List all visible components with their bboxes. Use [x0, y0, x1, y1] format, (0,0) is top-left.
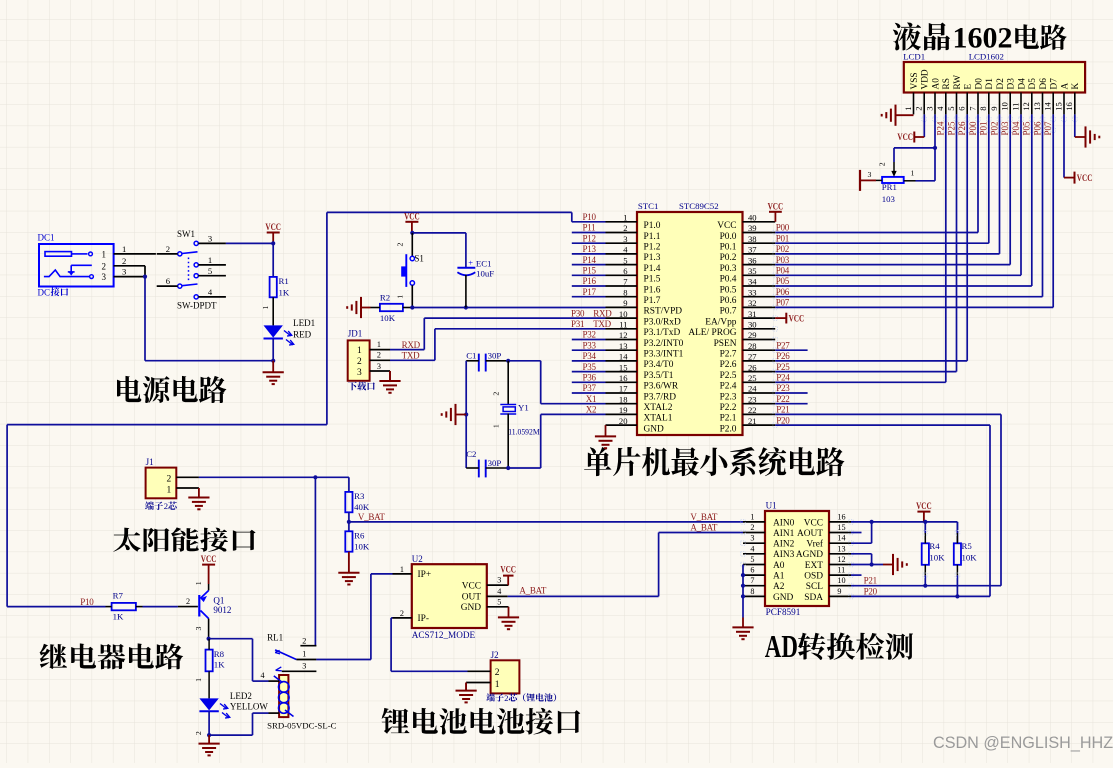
svg-text:P23: P23 [776, 383, 790, 393]
MCU pin 17 (P3.7/RD) [606, 384, 677, 403]
LCD1 pin 9 (D2) [989, 78, 1006, 115]
svg-text:P27: P27 [776, 340, 790, 350]
junction U1 pin8 [741, 594, 745, 598]
svg-text:12: 12 [837, 555, 845, 564]
junction EXT row [870, 562, 874, 566]
svg-text:VCC: VCC [404, 211, 420, 221]
svg-text:P0.1: P0.1 [720, 243, 737, 253]
svg-text:13: 13 [619, 341, 628, 351]
svg-text:VCC: VCC [462, 581, 481, 591]
VCC at U2 pin3 [500, 565, 516, 586]
svg-text:2: 2 [302, 637, 306, 646]
svg-text:P07: P07 [1043, 121, 1053, 136]
MCU pin 33 (P0.6) [720, 287, 776, 306]
svg-text:P1.3: P1.3 [644, 253, 661, 263]
junction reset VCC [410, 231, 414, 235]
svg-text:GND: GND [461, 603, 482, 613]
wire OSD stub [851, 574, 862, 576]
svg-text:P03: P03 [1000, 121, 1010, 136]
ground at MCU pin20 [595, 425, 616, 448]
net TXD wire JD1 [390, 329, 435, 361]
VCC at LCD pin15 [1064, 172, 1092, 184]
svg-text:P2.1: P2.1 [720, 414, 737, 424]
svg-text:21: 21 [748, 416, 757, 426]
resistor R5 10K [954, 522, 977, 597]
svg-text:P05: P05 [1022, 121, 1032, 136]
MCU pin 25 (P2.4) [720, 373, 776, 392]
wire AOUT stub [851, 532, 862, 534]
svg-text:3: 3 [208, 234, 212, 244]
svg-text:P03: P03 [776, 255, 790, 265]
svg-text:2: 2 [623, 223, 627, 233]
svg-text:AIN1: AIN1 [773, 529, 795, 539]
U1 pin 7 (A2) [743, 576, 785, 592]
U1 pin 10 (SCL) [806, 576, 851, 592]
DC1 pin 2 [114, 256, 145, 266]
LCD1 pin 10 (D3) [1000, 78, 1017, 115]
JD1 pin 3 [370, 362, 390, 371]
svg-text:P25: P25 [776, 362, 790, 372]
wire LCD pin16 (K) to ground [1074, 114, 1076, 137]
svg-text:5: 5 [946, 107, 956, 111]
VCC at Q1 emitter [201, 554, 217, 584]
svg-text:P14: P14 [583, 255, 597, 265]
SW1 pin 3 [198, 234, 226, 244]
svg-text:P1.6: P1.6 [644, 285, 661, 295]
wire LCD pin 11 net P04 vertical [1020, 114, 1022, 275]
ACS712_MODE label [412, 630, 476, 640]
svg-text:1: 1 [122, 244, 126, 254]
svg-text:3: 3 [868, 170, 872, 179]
svg-text:10: 10 [837, 576, 845, 585]
svg-text:19: 19 [619, 405, 628, 415]
MCU pin 14 (P3.4/T0) [606, 352, 674, 371]
svg-text:AOUT: AOUT [797, 529, 823, 539]
svg-text:AD: AD [765, 629, 798, 663]
net P20 wire [775, 415, 990, 596]
U1 pin 2 (AIN1) [743, 523, 795, 539]
svg-text:Q1: Q1 [213, 595, 224, 605]
下载口 label [348, 382, 375, 391]
wire DC1 pin2 down to pin3 [144, 266, 146, 277]
svg-text:P37: P37 [583, 383, 597, 393]
wire P10 long route [7, 212, 605, 606]
svg-text:SW1: SW1 [177, 229, 195, 239]
wire reset node to MCU pin9 [412, 307, 605, 309]
svg-text:25: 25 [748, 373, 757, 383]
RL1 pin 5 [269, 712, 280, 714]
svg-text:2: 2 [400, 609, 404, 618]
svg-text:R4: R4 [929, 541, 940, 551]
svg-text:10K: 10K [929, 553, 945, 563]
VCC power circuit [265, 222, 281, 243]
svg-text:16: 16 [837, 512, 845, 521]
svg-text:10: 10 [1000, 102, 1010, 111]
svg-text:P3.3/INT1: P3.3/INT1 [644, 350, 684, 360]
wire C1 left down to C2 [465, 361, 467, 468]
U1 pin 12 (EXT) [805, 555, 851, 571]
svg-text:PCF8591: PCF8591 [766, 607, 801, 617]
svg-text:R3: R3 [354, 491, 365, 501]
svg-text:2: 2 [377, 351, 381, 360]
svg-text:P25: P25 [946, 121, 956, 136]
resistor R1 1K [261, 276, 290, 309]
junction S1/R2 [410, 305, 414, 309]
svg-text:P20: P20 [864, 586, 878, 596]
U2 designator [412, 554, 423, 564]
svg-text:P05: P05 [776, 276, 790, 286]
svg-text:1602: 1602 [953, 21, 1013, 54]
svg-text:3: 3 [122, 267, 126, 277]
J1 pin 1 [176, 487, 199, 489]
svg-text:D3: D3 [1007, 78, 1017, 90]
MCU pin 38 (P0.1) [720, 234, 776, 253]
svg-text:P33: P33 [583, 340, 597, 350]
RL1 pin 4 [261, 671, 280, 681]
svg-text:X2: X2 [586, 405, 597, 415]
u1 pin marks [741, 520, 854, 599]
svg-text:P3.6/WR: P3.6/WR [644, 382, 679, 392]
SRD-05VDC-SL-C label [267, 721, 337, 731]
svg-text:VCC: VCC [1077, 173, 1093, 183]
title: relay circuit 继电器电路 [40, 643, 184, 669]
svg-text:P0.3: P0.3 [720, 264, 737, 274]
svg-text:+: + [468, 258, 473, 268]
svg-text:16: 16 [1064, 102, 1074, 111]
U2 pin 4 (OUT) [462, 587, 508, 603]
svg-text:PSEN: PSEN [714, 339, 737, 349]
net P03 wire [775, 255, 1010, 265]
svg-text:1: 1 [208, 255, 212, 265]
svg-text:2: 2 [194, 731, 203, 735]
svg-text:2: 2 [396, 243, 405, 247]
wire AGND jog to EXT [851, 554, 872, 565]
watermark CSDN [933, 734, 1113, 752]
svg-text:P10: P10 [583, 212, 597, 222]
MCU pin 2 (P1.1) [606, 223, 661, 242]
svg-text:31: 31 [748, 309, 757, 319]
svg-text:36: 36 [748, 255, 757, 265]
svg-text:A0: A0 [773, 561, 785, 571]
wire LED2 to ground rail [194, 711, 209, 735]
MCU pin 5 (P1.4) [606, 255, 661, 274]
net label P24 (rotated) [936, 121, 946, 136]
svg-text:TXD: TXD [402, 351, 420, 361]
junction V_BAT [347, 520, 351, 524]
svg-text:P24: P24 [776, 373, 790, 383]
svg-text:P31: P31 [571, 319, 584, 329]
MCU pin 23 (P2.2) [720, 394, 776, 413]
svg-text:6: 6 [623, 266, 628, 276]
junction LED2 ground [207, 733, 211, 737]
LCD1 pin 11 (D4) [1010, 78, 1027, 115]
net label P36 wire [572, 373, 606, 383]
svg-text:A_BAT: A_BAT [519, 586, 547, 596]
connector J1 solar [146, 468, 177, 499]
wire LCD pin 13 net P06 vertical [1042, 114, 1044, 296]
VCC at LCD pin2 (VDD) [897, 114, 924, 142]
MCU pin 15 (P3.5/T1) [606, 362, 674, 381]
VCC pullups [916, 501, 932, 522]
title: power circuit 电源电路 [117, 376, 226, 403]
wire C1 row to X1 elbow [508, 361, 541, 404]
svg-text:14: 14 [619, 352, 628, 362]
net label P15 wire [572, 266, 606, 276]
connector J2 battery [491, 660, 520, 693]
ground at LCD pin1 (VSS) [882, 105, 914, 126]
U1 pin 5 (A0) [743, 555, 785, 571]
svg-text:9: 9 [989, 107, 999, 111]
svg-text:CSDN @ENGLISH_HHZ: CSDN @ENGLISH_HHZ [933, 734, 1113, 752]
svg-text:P1.4: P1.4 [644, 264, 661, 274]
svg-text:12: 12 [1021, 102, 1031, 111]
net P27 wire [775, 340, 807, 350]
ground U2 pin5 [498, 607, 519, 629]
svg-text:P2.3: P2.3 [720, 392, 737, 402]
svg-text:EXT: EXT [805, 561, 823, 571]
wire A_BAT U2 OUT to U1 pin2 [508, 533, 743, 597]
svg-text:P00: P00 [968, 121, 978, 136]
MCU pin 20 (GND) [606, 416, 665, 435]
svg-text:27: 27 [748, 352, 757, 362]
MCU pin 37 (P0.2) [720, 245, 776, 264]
svg-text:10uF: 10uF [476, 269, 494, 279]
svg-text:2: 2 [166, 244, 170, 254]
wire LCD pin 6 net P26 vertical [966, 114, 968, 361]
svg-text:3: 3 [497, 576, 501, 585]
J2 pin 2 [468, 670, 491, 672]
svg-text:AIN2: AIN2 [773, 540, 795, 550]
relay RL1 coil [274, 675, 294, 717]
svg-text:3: 3 [377, 362, 381, 371]
MCU U? designator STC1 [638, 201, 659, 211]
net label P05 (rotated) [1022, 121, 1032, 136]
svg-text:XTAL1: XTAL1 [644, 414, 673, 424]
svg-text:IP-: IP- [418, 614, 429, 624]
svg-text:13: 13 [837, 544, 845, 553]
svg-text:12: 12 [619, 330, 628, 340]
wire R3 to R6 [348, 512, 350, 531]
net label P10 wire [583, 212, 597, 222]
net P04 wire [775, 266, 1021, 276]
svg-text:VCC: VCC [897, 132, 913, 142]
SW1 pin 4 [198, 287, 226, 297]
net P23 wire [775, 383, 807, 393]
junction crystal ground [464, 412, 468, 416]
svg-text:A1: A1 [773, 572, 785, 582]
capacitor C1 30P [466, 351, 508, 372]
svg-text:P13: P13 [583, 244, 597, 254]
U1 pin 11 (OSD) [804, 566, 851, 582]
svg-text:P07: P07 [776, 298, 790, 308]
svg-text:VCC: VCC [916, 501, 932, 511]
svg-text:JD1: JD1 [348, 329, 363, 339]
IC U1 PCF8591 body [765, 511, 829, 606]
wire EXT to ground [851, 564, 883, 566]
net label P14 wire [572, 255, 606, 265]
svg-text:A: A [1060, 83, 1070, 90]
relay RL1 contacts [275, 650, 296, 671]
RL1 pin 1 [296, 650, 316, 660]
DC接口 label [38, 287, 69, 297]
LED LED1 RED [264, 318, 316, 345]
svg-text:23: 23 [748, 394, 757, 404]
wire DC rail down-right to LED gnd [145, 277, 273, 361]
svg-text:Y1: Y1 [518, 402, 529, 412]
r4r5 marks [923, 531, 960, 578]
svg-text:2: 2 [495, 668, 500, 678]
svg-text:IP+: IP+ [418, 570, 432, 580]
svg-text:YELLOW: YELLOW [230, 702, 268, 712]
svg-text:P02: P02 [989, 121, 999, 135]
svg-text:2: 2 [164, 501, 168, 511]
svg-text:ALE/ PROG: ALE/ PROG [688, 328, 736, 338]
svg-text:P06: P06 [776, 287, 790, 297]
MCU pin 21 (P2.0) [720, 416, 776, 435]
svg-text:1K: 1K [279, 288, 290, 298]
LCD1 pin 15 (A) [1053, 83, 1070, 115]
U2 pin 5 (GND) [461, 597, 509, 613]
svg-text:16: 16 [619, 373, 628, 383]
net P05 wire [775, 276, 1032, 286]
svg-text:8: 8 [623, 287, 627, 297]
svg-text:11.0592M: 11.0592M [508, 426, 540, 436]
svg-text:R7: R7 [113, 591, 124, 601]
svg-text:R6: R6 [354, 530, 365, 540]
svg-text:D0: D0 [974, 78, 984, 90]
junction at PR1 wiper branch [933, 146, 937, 150]
JD1 pin 1 [370, 340, 390, 350]
svg-text:3: 3 [194, 627, 203, 631]
svg-text:1: 1 [377, 340, 381, 349]
svg-text:1: 1 [194, 678, 203, 682]
LCD1 component body [904, 62, 1085, 93]
svg-text:26: 26 [748, 362, 757, 372]
svg-text:2: 2 [357, 357, 362, 367]
MCU STC1 component body [637, 212, 743, 435]
net label P37 wire [572, 383, 606, 393]
svg-text:LED2: LED2 [230, 691, 252, 701]
MCU pin 39 (P0.0) [720, 223, 776, 242]
wire R7 to Q1 base [143, 597, 198, 607]
svg-text:P2.2: P2.2 [720, 403, 737, 413]
junction C1/Y1 [506, 359, 510, 363]
svg-text:P0.7: P0.7 [720, 307, 737, 317]
svg-text:Vref: Vref [806, 539, 823, 550]
svg-text:2: 2 [167, 475, 172, 485]
svg-text:22: 22 [748, 405, 757, 415]
net P01 wire [775, 233, 989, 243]
svg-text:1: 1 [911, 168, 915, 177]
title: li battery interface 锂电池电池接口 [382, 708, 581, 735]
svg-text:E: E [964, 84, 974, 90]
LCD1 pin 16 (K) [1064, 83, 1081, 115]
svg-text:TXD: TXD [593, 319, 611, 329]
svg-text:2: 2 [122, 256, 126, 266]
svg-text:P02: P02 [776, 244, 789, 254]
svg-text:6: 6 [166, 276, 171, 286]
svg-text:OSD: OSD [804, 572, 823, 582]
svg-text:P26: P26 [957, 121, 967, 136]
svg-text:1: 1 [396, 295, 405, 299]
U1 pin 8 (GND) [743, 587, 794, 603]
wire RL1 pin1 to U2 IP+ [316, 574, 392, 660]
wire U1 A0-A2-GND bus to ground [742, 565, 744, 618]
mcu pin marks [773, 230, 778, 427]
resistor R8 1K [194, 639, 225, 682]
junction U1 VCC/Vref [870, 520, 874, 524]
VCC at MCU pin31 (EA) [775, 313, 804, 324]
junction LED1 ground [271, 359, 275, 363]
svg-text:VCC: VCC [768, 201, 784, 211]
MCU pin 24 (P2.3) [720, 384, 776, 403]
svg-text:P34: P34 [583, 351, 597, 361]
LCD1 pin 4 (RS) [935, 78, 952, 114]
MCU comment STC89C52 [679, 201, 719, 211]
net X1 wire [541, 394, 606, 404]
svg-text:P0.6: P0.6 [720, 296, 737, 306]
端子2芯 label [145, 501, 177, 511]
svg-text:29: 29 [748, 330, 757, 340]
net label V_BAT [358, 512, 386, 522]
svg-text:1: 1 [167, 485, 172, 495]
title: solar interface 太阳能接口 [113, 527, 255, 551]
MCU pin 13 (P3.3/INT1) [606, 341, 684, 360]
svg-text:RW: RW [953, 75, 963, 90]
wire J1 pin2 to R3 [199, 477, 349, 492]
net label P10 relay [80, 597, 94, 607]
svg-text:P20: P20 [776, 415, 790, 425]
svg-text:VCC: VCC [717, 221, 736, 231]
svg-text:3: 3 [302, 662, 306, 671]
svg-text:P04: P04 [1011, 121, 1021, 136]
net label V_BAT at U1 [690, 512, 718, 522]
svg-text:P2.5: P2.5 [720, 371, 737, 381]
svg-text:5: 5 [497, 597, 501, 606]
svg-text:8: 8 [978, 107, 988, 111]
net label P33 wire [572, 340, 606, 350]
ground R6 [338, 552, 359, 585]
SW1 pin 2 [157, 244, 178, 254]
svg-text:1: 1 [623, 213, 627, 223]
svg-text:P06: P06 [1032, 121, 1042, 136]
svg-text:VCC: VCC [500, 565, 516, 575]
svg-text:7: 7 [750, 576, 754, 585]
svg-text:R1: R1 [279, 276, 289, 286]
svg-text:2: 2 [914, 107, 924, 111]
crystal Y1 11.0592M [492, 361, 540, 468]
pushbutton S1 [396, 233, 424, 308]
svg-text:2: 2 [186, 597, 190, 606]
svg-text:10K: 10K [962, 553, 978, 563]
svg-text:D6: D6 [1039, 78, 1049, 90]
junction J1/RL1 [313, 475, 317, 479]
svg-text:SCL: SCL [806, 582, 823, 592]
ground JD1 pin3 [379, 371, 400, 393]
lcd pin connection marks [922, 117, 1077, 133]
resistor R4 10K [922, 522, 945, 586]
svg-text:15: 15 [837, 523, 845, 532]
net label A_BAT at U1 [690, 523, 718, 533]
title: MCU minimal system 单片机最小系统电路 [584, 447, 844, 476]
svg-text:K: K [1071, 83, 1081, 90]
svg-text:5: 5 [208, 266, 212, 276]
svg-text:P04: P04 [776, 266, 790, 276]
svg-text:VCC: VCC [804, 518, 823, 528]
svg-text:1: 1 [357, 346, 362, 356]
svg-text:6: 6 [957, 106, 967, 111]
junction R4/SCL [923, 584, 927, 588]
